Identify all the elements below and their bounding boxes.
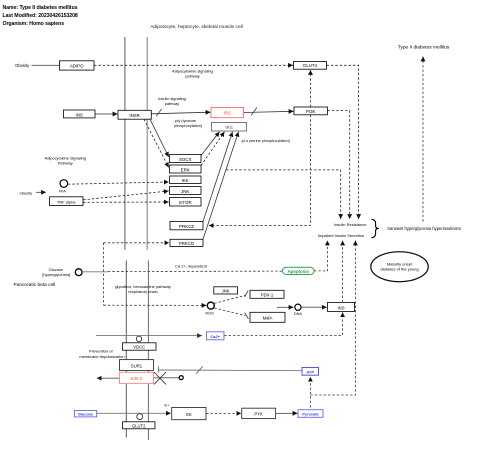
box ATP (blue) xyxy=(302,368,319,376)
wire PI3K right to insulin resistance dashed xyxy=(328,111,350,219)
svg-text:SOCS: SOCS xyxy=(179,157,192,162)
wire PRKCZ-IRS arrow xyxy=(203,132,233,222)
box JNK (adipocyte) xyxy=(170,187,202,195)
svg-text:Glucose: Glucose xyxy=(78,412,94,417)
box Ca2+ (blue) xyxy=(207,332,225,340)
svg-text:Organism: Homo sapiens: Organism: Homo sapiens xyxy=(3,21,65,27)
box Glucose (blue) xyxy=(74,411,96,417)
wire ATP inhibition line to KATP channel xyxy=(159,369,303,372)
svg-text:respiratory chain: respiratory chain xyxy=(128,289,158,294)
box GLUT4 xyxy=(294,62,327,70)
svg-text:GLUT2: GLUT2 xyxy=(132,423,146,428)
wire ROS-PDX1 dashed with bar xyxy=(214,295,245,303)
svg-text:Ca2+: Ca2+ xyxy=(210,334,220,339)
wire to Type II diabetes dashed arrow xyxy=(422,57,424,222)
svg-text:IKK: IKK xyxy=(182,178,189,183)
node VDCC circle xyxy=(136,336,141,341)
wire TNF-JNK dashed arrow xyxy=(83,191,169,200)
box PYK xyxy=(242,408,276,418)
box SUR1 xyxy=(120,360,154,371)
svg-text:GK: GK xyxy=(186,412,192,417)
wire hyperglycemia vertical branch dashed xyxy=(102,243,104,305)
svg-text:Adipotocyte, heptocyte, skelet: Adipotocyte, heptocyte, skeletal muscle … xyxy=(150,24,243,30)
wire Kir6.2 to closed state circle xyxy=(154,377,179,379)
wire INSR-ERK dashed arrow xyxy=(144,119,169,167)
svg-text:pathway: pathway xyxy=(165,101,180,106)
svg-text:ATP: ATP xyxy=(305,369,314,374)
wire INS-INSR arrow xyxy=(95,113,118,115)
svg-text:PDX-1: PDX-1 xyxy=(261,293,274,298)
svg-text:VDCC: VDCC xyxy=(133,345,145,350)
svg-text:pathway: pathway xyxy=(185,74,200,79)
svg-text:FFA: FFA xyxy=(59,190,66,194)
svg-text:Pathway: Pathway xyxy=(58,160,73,165)
node FFA circle xyxy=(60,180,68,188)
svg-text:diabetes of the young: diabetes of the young xyxy=(380,266,418,271)
box GLUT2 xyxy=(123,422,156,429)
svg-text:PI3K: PI3K xyxy=(306,109,316,114)
box GK xyxy=(172,408,206,420)
wire apoptosis to impaired secretion dashed xyxy=(314,241,327,271)
wire VDCC Ca line xyxy=(96,335,202,337)
wire SOCS-IRS arrow xyxy=(201,132,220,156)
svg-text:INS: INS xyxy=(338,305,345,310)
box Apoptosis (green stadium) xyxy=(283,267,315,274)
box IKK xyxy=(170,176,202,184)
wire Ca2+-INS dashed arrow xyxy=(224,312,342,335)
wire glucose circle solid stub xyxy=(82,271,108,273)
svg-text:PRKCZ: PRKCZ xyxy=(179,224,194,229)
svg-text:[hyperglycemia]: [hyperglycemia] xyxy=(42,272,70,277)
svg-text:-p/-s (serine phosphorylation): -p/-s (serine phosphorylation) xyxy=(241,139,291,143)
node closed state small circle xyxy=(179,376,183,380)
svg-text:transient hyperglycemia hyperi: transient hyperglycemia hyperinsulinism xyxy=(388,226,462,231)
svg-text:JNK: JNK xyxy=(222,289,230,294)
node glucose circle xyxy=(75,269,82,276)
box VDCC xyxy=(123,343,157,350)
svg-text:JNK: JNK xyxy=(181,189,189,194)
wire ROS-MafA dashed with bar xyxy=(214,308,245,316)
svg-text:PYK: PYK xyxy=(254,412,263,417)
membrane beta cell right line xyxy=(147,260,149,440)
box PRKCD xyxy=(170,239,203,246)
svg-text:K+: K+ xyxy=(165,403,171,407)
wire glucose to GK xyxy=(97,412,171,414)
svg-text:-p/y (tyrosine: -p/y (tyrosine xyxy=(174,119,196,123)
wire obesity-FFA arrow xyxy=(36,191,46,193)
svg-text:Type II diabetes mellitus: Type II diabetes mellitus xyxy=(398,44,450,50)
svg-text:Apoptosis: Apoptosis xyxy=(287,269,309,274)
membrane beta cell left line xyxy=(125,260,127,437)
svg-text:Insulin Resistance: Insulin Resistance xyxy=(334,222,367,227)
svg-text:ROS: ROS xyxy=(205,312,214,316)
box Kir6.2 (red) xyxy=(120,372,154,383)
box mTOR xyxy=(170,198,202,207)
box MafA xyxy=(250,312,285,322)
box TNF alpha xyxy=(50,197,84,206)
svg-text:Obesity: Obesity xyxy=(15,63,30,68)
box SOCS xyxy=(170,155,202,163)
wire pyruvate-ATP dashed arrow xyxy=(309,377,311,408)
svg-text:INS: INS xyxy=(76,113,83,118)
box PI3K xyxy=(294,107,328,115)
svg-text:DNA: DNA xyxy=(294,312,302,316)
wire ERK-IRS dashed arrow xyxy=(201,132,225,166)
wire INSR-IRS arrow with slash xyxy=(151,112,210,114)
wire DNA-INS arrow xyxy=(301,306,327,308)
svg-text:SUR1: SUR1 xyxy=(131,363,143,368)
wire PRKCD-IRS arrow xyxy=(203,132,239,240)
wire GK-PYK dashed arrow xyxy=(206,412,241,414)
wire ATP junction to impaired secretion dashed arrow xyxy=(310,241,355,396)
svg-text:Kir6.2: Kir6.2 xyxy=(131,376,143,381)
svg-text:Last Modified: 20230426153208: Last Modified: 20230426153208 xyxy=(3,13,78,19)
box ADIPO xyxy=(60,61,95,70)
svg-text:Pancreatic beta cell: Pancreatic beta cell xyxy=(14,282,56,288)
box JNK (beta cell) xyxy=(214,287,238,294)
svg-text:INSR: INSR xyxy=(129,113,140,118)
node GLUT2 transporter circle xyxy=(137,414,143,420)
wire K+ efflux arrow xyxy=(97,377,120,379)
svg-text:ADIPO: ADIPO xyxy=(70,63,84,68)
box INS (beta cell) xyxy=(328,302,355,311)
inhibition X on Kir6.2 xyxy=(154,372,166,385)
wire GLUT4 to insulin resistance dashed xyxy=(327,65,359,219)
svg-text:PRKCD: PRKCD xyxy=(179,241,194,246)
membrane adipocyte right line xyxy=(146,37,148,250)
box INS (plasma insulin) xyxy=(64,110,96,118)
node DNA circle xyxy=(295,304,301,310)
wire TNF-mTOR dashed arrow xyxy=(83,201,169,203)
svg-text:Ca 2+, dependent: Ca 2+, dependent xyxy=(175,264,208,269)
svg-text:Impaired Insulin Secretion: Impaired Insulin Secretion xyxy=(318,233,364,238)
box PDX-1 xyxy=(250,290,284,298)
wire PYK-Pyruvate arrow xyxy=(276,412,298,414)
box PRKCZ xyxy=(170,222,203,230)
svg-text:TNF alpha: TNF alpha xyxy=(57,199,76,204)
node maturity onset diabetes ellipse xyxy=(371,252,428,282)
brace xyxy=(371,219,379,237)
box Pyruvate (blue) xyxy=(298,410,323,418)
wire branch to PRKCD dashed arrow xyxy=(103,242,169,244)
node ROS circle xyxy=(207,302,214,309)
svg-text:GLUT4: GLUT4 xyxy=(303,63,318,68)
svg-text:obesity: obesity xyxy=(20,191,33,196)
svg-text:ERK: ERK xyxy=(181,167,190,172)
svg-text:mTOR: mTOR xyxy=(179,200,192,205)
wire PI3K down to PRKCZ dashed xyxy=(209,115,311,226)
box ERK xyxy=(170,165,202,173)
wire branch to insulin resistance dashed xyxy=(226,170,341,219)
wire PI3K-GLUT4 dashed arrow up xyxy=(310,70,312,107)
box INSR xyxy=(118,110,151,119)
svg-text:Prevention of: Prevention of xyxy=(89,348,113,353)
svg-text:membrane depolarization: membrane depolarization xyxy=(79,354,124,359)
wire glucose-apoptosis dashed xyxy=(108,270,282,273)
box IRS (serine phosphorylated, purple) xyxy=(212,123,247,132)
svg-text:IRS: IRS xyxy=(225,125,232,130)
wire branch to ROS dashed arrow xyxy=(103,304,206,306)
svg-text:MafA: MafA xyxy=(263,316,273,321)
svg-text:Name: Type II diabetes mellitu: Name: Type II diabetes mellitus xyxy=(3,5,78,11)
box IRS (tyrosine phosphorylated, red) xyxy=(211,108,244,118)
svg-text:IRS: IRS xyxy=(224,111,231,116)
svg-text:Pyruvate: Pyruvate xyxy=(302,411,319,416)
wire IRS-PI3K arrow with slash xyxy=(244,111,294,112)
wire ADIPO-GLUT4 dashed arrow xyxy=(94,64,293,66)
svg-text:phosphorylation): phosphorylation) xyxy=(174,124,203,128)
wire INS to impaired secretion dashed arrow xyxy=(342,241,344,303)
wire INSR-SOCS solid arrow xyxy=(150,119,169,157)
wire to DNA arrow xyxy=(277,306,294,308)
membrane adipocyte left line xyxy=(124,37,126,250)
wire FFA-IKK dashed arrow xyxy=(68,182,169,184)
header title text xyxy=(3,5,78,27)
wire Obesity-ADIPO xyxy=(32,64,60,66)
